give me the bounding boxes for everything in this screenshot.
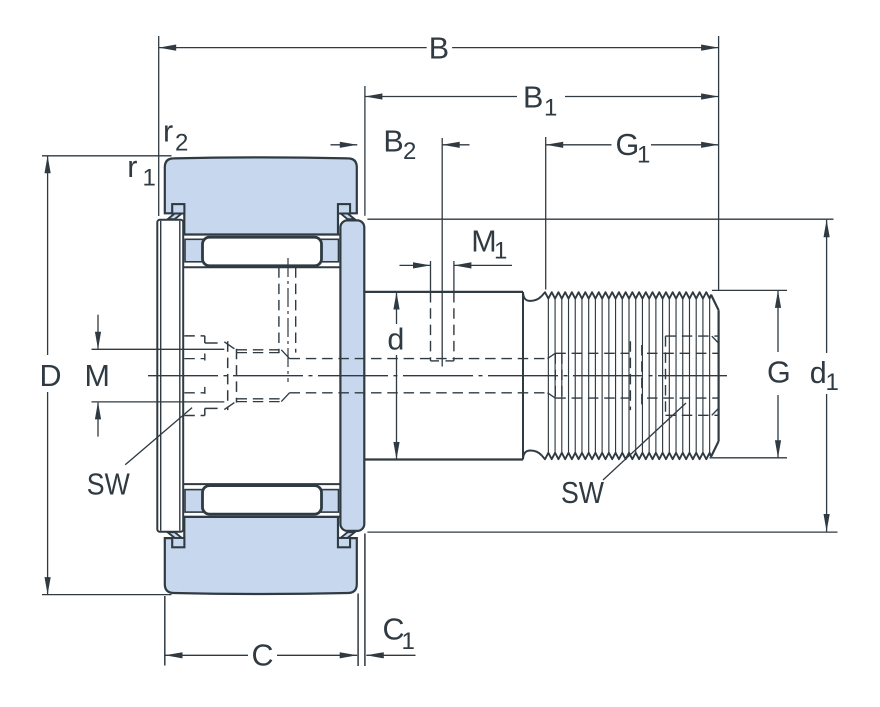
svg-text:SW: SW (561, 476, 604, 510)
svg-text:r: r (127, 150, 137, 184)
svg-text:1: 1 (544, 95, 557, 122)
svg-text:d: d (387, 323, 404, 357)
svg-text:B: B (383, 125, 403, 159)
svg-text:D: D (39, 359, 61, 393)
svg-text:1: 1 (494, 238, 507, 265)
svg-text:SW: SW (87, 468, 130, 502)
svg-text:2: 2 (403, 138, 416, 165)
svg-text:G: G (767, 356, 791, 390)
svg-text:2: 2 (175, 130, 188, 157)
svg-text:M: M (471, 225, 496, 259)
svg-text:M: M (84, 359, 109, 393)
svg-text:B: B (429, 31, 449, 65)
svg-text:1: 1 (402, 628, 415, 655)
svg-text:B: B (523, 81, 543, 115)
svg-text:d: d (810, 356, 827, 390)
svg-text:1: 1 (143, 165, 156, 192)
svg-text:r: r (163, 114, 173, 148)
svg-text:1: 1 (637, 142, 650, 169)
svg-text:C: C (251, 639, 273, 673)
svg-text:1: 1 (826, 369, 839, 396)
svg-text:G: G (616, 128, 640, 162)
